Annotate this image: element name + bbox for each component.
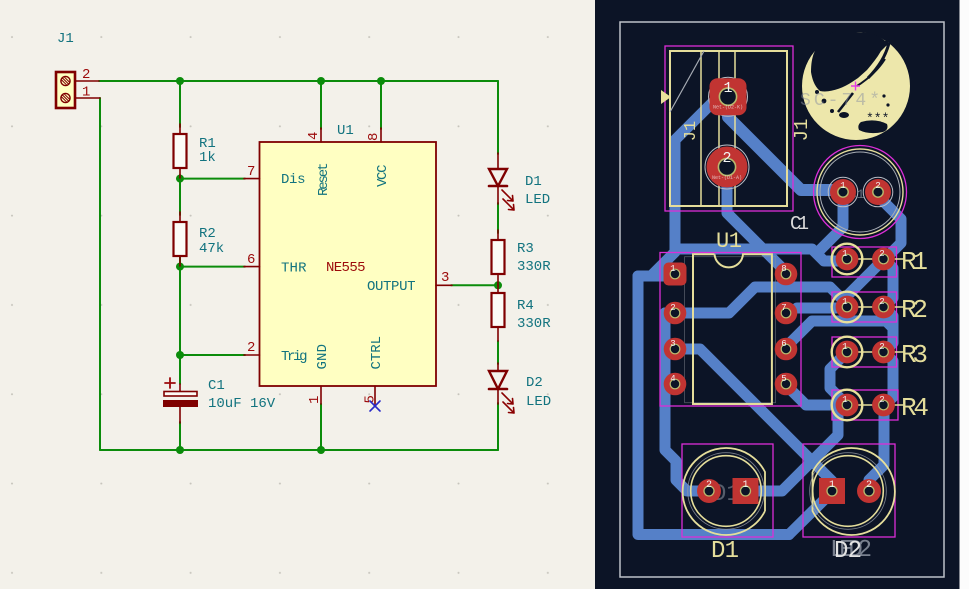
resistor R3	[492, 230, 552, 285]
svg-text:2: 2	[879, 395, 884, 405]
svg-text:CTRL: CTRL	[369, 336, 385, 370]
wire pin8 vertical	[380, 81, 382, 129]
wire bottom rail	[100, 449, 498, 451]
pcb background	[595, 0, 969, 589]
trace U1.5 to R4.1	[786, 385, 836, 405]
svg-text:LED: LED	[525, 192, 550, 208]
svg-text:6: 6	[247, 252, 255, 268]
moon silkscreen graphic	[800, 31, 910, 140]
resistor R1 footprint	[832, 244, 928, 277]
pin 2 stub	[244, 354, 260, 356]
U1 pad 2	[664, 302, 687, 325]
junction node top R1	[176, 77, 184, 85]
svg-text:3: 3	[441, 270, 449, 286]
trace D1.1 to R4.1	[757, 405, 847, 491]
svg-text:1: 1	[840, 181, 845, 191]
pin 5 stub with no-connect	[374, 386, 376, 404]
trace R4.2 to D2.2	[869, 406, 884, 489]
C1 pad 1	[828, 177, 858, 207]
resistor R4	[492, 285, 552, 341]
pin 4 stub	[320, 128, 322, 142]
U1 pad 8	[775, 263, 798, 286]
svg-text:THR: THR	[281, 261, 307, 277]
C1 pad 2	[863, 177, 893, 207]
resistor R2	[174, 212, 225, 266]
svg-text:C1: C1	[208, 378, 225, 394]
capacitor C1	[163, 378, 276, 423]
trace U1.1 stub	[638, 271, 666, 282]
svg-text:2: 2	[879, 342, 884, 352]
U1 pad 1	[664, 263, 687, 286]
svg-text:NE555: NE555	[326, 260, 366, 276]
svg-text:VCC: VCC	[375, 165, 391, 188]
diode D2 LED	[489, 363, 551, 413]
svg-text:R4: R4	[901, 393, 929, 423]
svg-text:47k: 47k	[199, 241, 224, 257]
junction node bottom pin1	[317, 446, 325, 454]
LED D2 footprint	[803, 444, 895, 565]
pin 8 stub	[380, 128, 382, 142]
D2 pad 1	[819, 478, 845, 504]
svg-text:2: 2	[247, 340, 255, 356]
svg-text:R3: R3	[517, 241, 534, 257]
svg-text:330R: 330R	[517, 316, 551, 332]
svg-text:***: ***	[866, 111, 889, 126]
svg-text:D2: D2	[526, 375, 543, 391]
svg-text:Dis: Dis	[281, 172, 306, 188]
pin 7 stub	[244, 178, 260, 180]
svg-text:5: 5	[781, 374, 786, 384]
U1 pad 7	[775, 302, 798, 325]
J1 pad 2	[705, 145, 749, 189]
svg-text:Trig: Trig	[281, 349, 308, 365]
svg-text:1: 1	[82, 85, 90, 101]
svg-text:D1: D1	[525, 174, 542, 190]
pin 1 stub	[320, 386, 322, 404]
trace left mid vertical to D1.2	[665, 313, 700, 491]
trace C1.1 drop	[821, 198, 843, 249]
trace top horizontal to R1.1	[675, 249, 840, 261]
svg-text:2: 2	[670, 303, 675, 313]
trace C1.2 to R1.2	[878, 196, 901, 260]
svg-text:LED: LED	[526, 394, 551, 410]
connector J1 footprint	[661, 46, 813, 211]
svg-text:6: 6	[781, 339, 786, 349]
svg-text:OUTPUT: OUTPUT	[367, 279, 416, 295]
svg-text:R2: R2	[199, 226, 216, 242]
svg-text:C1: C1	[790, 213, 809, 235]
trace bottom to D2.1	[789, 493, 831, 535]
resistor R4 footprint	[832, 390, 929, 423]
svg-text:4: 4	[670, 374, 675, 384]
svg-text:1: 1	[307, 396, 323, 404]
trace R3.2-R4.2 link	[884, 352, 893, 406]
svg-text:GND: GND	[315, 344, 331, 370]
trace J1.1 to C1.1	[728, 117, 843, 190]
svg-text:3: 3	[670, 339, 675, 349]
svg-text:Net-(D2-K): Net-(D2-K)	[713, 105, 743, 111]
junction node top pin8	[377, 77, 385, 85]
svg-text:R3: R3	[901, 340, 928, 370]
U1 pad 6	[775, 338, 798, 361]
schematic grid dots	[0, 0, 595, 589]
svg-text:1: 1	[842, 395, 847, 405]
svg-text:1: 1	[723, 80, 732, 97]
trace left gnd vertical	[633, 276, 644, 533]
pin 3 stub	[436, 284, 452, 286]
junction node R2 pin6	[176, 263, 184, 271]
junction node C1 pin2	[176, 351, 184, 359]
schematic background	[0, 0, 595, 589]
svg-text:Reset: Reset	[316, 163, 332, 197]
svg-text:1: 1	[842, 249, 847, 259]
svg-text:U1: U1	[337, 123, 354, 139]
resistor R2 footprint	[832, 292, 928, 325]
trace R1.2 to R2.1	[847, 259, 884, 305]
svg-text:R4: R4	[517, 298, 534, 314]
svg-text:J1: J1	[682, 121, 701, 141]
svg-text:2: 2	[875, 181, 880, 191]
wire pin7	[180, 178, 245, 180]
svg-text:1: 1	[842, 297, 847, 307]
trace J1.2 to U1.8	[727, 167, 786, 272]
svg-text:2: 2	[866, 480, 872, 491]
U1 pad 3	[664, 338, 687, 361]
board outline Edge.Cuts	[620, 22, 944, 577]
U1 pad 4	[664, 373, 687, 396]
wire left vertical	[99, 98, 101, 450]
wire right branch D1-R3-R4-D2	[497, 81, 499, 450]
svg-text:4: 4	[306, 132, 322, 140]
svg-text:2: 2	[879, 249, 884, 259]
pin 6 stub	[244, 266, 260, 268]
svg-text:330R: 330R	[517, 259, 551, 275]
D1 pad 1	[733, 478, 759, 504]
trace U1.6 to right link	[785, 321, 893, 348]
svg-text:8: 8	[366, 133, 382, 141]
trace R3.1 down link	[830, 352, 847, 405]
capacitor C1 footprint	[790, 146, 907, 239]
svg-text:J1: J1	[57, 31, 74, 47]
svg-text:J1: J1	[791, 119, 813, 142]
trace R1.2-R2.2 link	[884, 259, 893, 307]
svg-text:1k: 1k	[199, 150, 216, 166]
wire pin1 to bottom rail	[320, 404, 322, 450]
svg-text:2: 2	[706, 480, 712, 491]
trace U1.3 diagonal to D2.1	[675, 349, 832, 489]
wire pin6	[180, 266, 245, 268]
wire top rail	[99, 80, 498, 82]
trace U1.2 to R2.1	[675, 287, 847, 313]
wire R1-R2-C1 vertical	[179, 81, 181, 450]
resistor R3 footprint	[832, 337, 928, 370]
svg-text:1: 1	[742, 480, 748, 491]
junction node output R3-R4	[494, 281, 502, 289]
connector J1	[56, 31, 100, 108]
svg-text:2: 2	[722, 150, 731, 167]
svg-text:2: 2	[879, 297, 884, 307]
trace U1.7 to R2.1	[797, 303, 836, 314]
svg-text:D1: D1	[711, 538, 739, 565]
wire pin2	[180, 354, 245, 356]
svg-text:1: 1	[842, 342, 847, 352]
svg-text:D2: D2	[834, 538, 862, 565]
diode D1 LED	[489, 153, 550, 210]
trace R2.2-R3.2 link	[884, 307, 893, 352]
svg-text:R2: R2	[901, 295, 928, 325]
U1 pad 5	[775, 373, 798, 396]
trace U1.2 left stub	[665, 308, 675, 319]
svg-text:R1: R1	[901, 247, 928, 277]
wire pin4 vertical	[320, 81, 322, 129]
svg-text:10uF 16V: 10uF 16V	[208, 396, 276, 412]
svg-text:1: 1	[829, 480, 835, 491]
svg-text:7: 7	[781, 303, 786, 313]
junction node R1-R2 pin7	[176, 175, 184, 183]
junction node bottom C1	[176, 446, 184, 454]
op-amp U1 NE555 timer body	[260, 123, 437, 386]
LED D1 footprint	[682, 444, 773, 565]
junction node top pin4	[317, 77, 325, 85]
svg-text:2: 2	[82, 67, 90, 83]
resistor R1	[174, 124, 216, 178]
IC U1 footprint	[660, 229, 801, 406]
D2 pad 2	[857, 479, 881, 503]
D1 pad 2	[697, 479, 721, 503]
J1 pad 1	[709, 77, 748, 116]
svg-text:7: 7	[247, 164, 255, 180]
svg-text:8: 8	[781, 264, 786, 274]
right scrollbar strip	[960, 0, 969, 589]
trace J1.1 to U1.1 left drop	[653, 103, 712, 274]
trace U1.4 stub	[665, 379, 675, 390]
trace bottom horizontal	[638, 529, 789, 540]
wire pin3 output	[451, 284, 498, 286]
svg-text:Net-(D1-A): Net-(D1-A)	[712, 175, 742, 181]
svg-text:U1: U1	[716, 229, 742, 254]
svg-text:1: 1	[670, 264, 675, 274]
